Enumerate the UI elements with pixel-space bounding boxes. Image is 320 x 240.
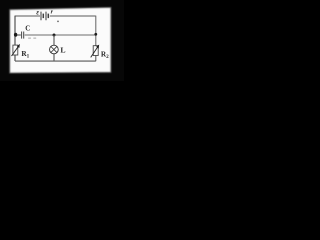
node dot right (on right wire) xyxy=(94,33,97,36)
wire top-left segment xyxy=(15,15,40,17)
rheostat R2 arrow shaft xyxy=(91,47,98,58)
wire bottom xyxy=(15,60,96,62)
middle branch wire left xyxy=(15,34,21,36)
svg-text:ε: ε xyxy=(36,8,39,16)
rheostat R1 box xyxy=(13,45,18,55)
battery cell plate short 1 xyxy=(42,14,44,19)
svg-text:L: L xyxy=(60,45,65,54)
rheostat R2 arrowhead xyxy=(96,45,99,49)
lamp L circle xyxy=(50,45,59,54)
rheostat R1 arrowhead xyxy=(17,44,20,48)
white paper area xyxy=(10,8,111,73)
wire left lower xyxy=(14,55,16,61)
battery cell plate short 2 xyxy=(47,14,49,19)
rheostat R1 arrow shaft xyxy=(12,46,19,56)
node dot middle (branch junction) xyxy=(53,34,56,37)
bulb branch wire lower xyxy=(53,54,55,61)
battery cell plate long 2 xyxy=(45,12,47,21)
bulb branch wire upper xyxy=(53,35,55,45)
wire left upper xyxy=(14,16,16,46)
battery cell plate long 1 xyxy=(40,12,42,21)
wire right upper xyxy=(95,16,97,46)
wire right lower xyxy=(95,55,97,61)
middle branch wire right xyxy=(25,34,96,36)
speck below top wire xyxy=(57,21,59,23)
rheostat R2 box xyxy=(93,46,98,56)
svg-text:C: C xyxy=(25,25,30,33)
capacitor C plate left xyxy=(21,32,23,39)
smudge 1 under branch xyxy=(28,37,31,39)
smudge 2 under branch xyxy=(33,37,36,39)
capacitor C plate right xyxy=(23,32,25,39)
node dot left (on left wire) xyxy=(14,33,17,37)
scan background xyxy=(0,0,124,81)
lamp L cross stroke 1 xyxy=(51,47,57,53)
lamp L cross stroke 2 xyxy=(51,47,57,53)
wire top-right segment xyxy=(50,15,96,17)
